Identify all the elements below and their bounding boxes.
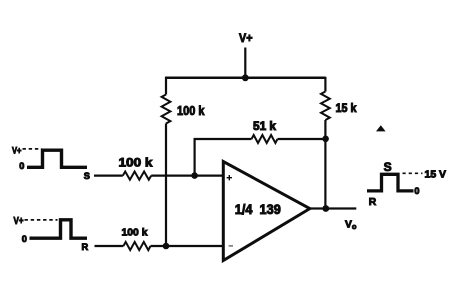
dashed V+ level line (R waveform) <box>25 219 58 221</box>
resistor 51 k feedback (horizontal) <box>252 135 278 143</box>
wire R input lead <box>95 245 124 247</box>
wire left vertical branch (resistor down to inverting node) <box>165 124 167 247</box>
S input pulse waveform <box>27 150 87 167</box>
wire right vertical branch (rail to resistor) <box>324 77 326 92</box>
svg-text:100 k: 100 k <box>122 227 148 239</box>
wire feedback run (from + input node up and right) <box>195 139 252 176</box>
svg-text:S: S <box>84 171 90 181</box>
svg-text:V+: V+ <box>239 31 253 45</box>
wire right vertical branch (resistor down to output node) <box>324 120 326 209</box>
svg-text:R: R <box>369 197 377 208</box>
label V+ level (R waveform) <box>14 216 24 227</box>
svg-text:0: 0 <box>414 186 419 196</box>
wire S input lead <box>94 175 123 177</box>
wire top supply rail <box>165 77 326 80</box>
svg-text:15 k: 15 k <box>336 101 357 115</box>
pin + (non-inverting input mark) <box>227 175 232 180</box>
label 100 k (R input) <box>122 227 148 239</box>
label S (input) <box>84 171 90 181</box>
label 0 level (R waveform) <box>22 234 27 244</box>
dashed 15 V level line (output waveform) <box>403 172 423 174</box>
op-amp U1 comparator triangle <box>223 162 309 261</box>
svg-text:1/4 139: 1/4 139 <box>235 202 281 217</box>
svg-text:V+: V+ <box>14 216 24 227</box>
label 100 k (pull-up) <box>177 104 205 118</box>
svg-text:0: 0 <box>22 234 27 244</box>
resistor 15 k pull-up (vertical, right) <box>321 92 330 121</box>
svg-text:51 k: 51 k <box>253 121 277 133</box>
output pulse waveform <box>367 174 414 191</box>
label 0 level (output waveform) <box>414 186 419 196</box>
label Vo output net <box>345 219 357 231</box>
label 100 k (S input) <box>119 155 153 169</box>
node junction dot at - input <box>163 243 170 250</box>
power V+ label <box>239 31 253 45</box>
label S (output waveform) <box>384 160 392 174</box>
pin - (inverting input mark) <box>229 245 233 247</box>
wire S resistor to comparator + input <box>151 175 223 177</box>
label 15 V level <box>425 170 447 181</box>
resistor 100 k (R input, horizontal) <box>123 242 150 250</box>
svg-text:S: S <box>384 160 392 174</box>
label 0 level (S waveform) <box>19 161 24 171</box>
label 15 k <box>336 101 357 115</box>
wire left vertical branch (rail to resistor) <box>165 77 167 95</box>
svg-text:R: R <box>82 242 89 252</box>
svg-text:100 k: 100 k <box>177 104 205 118</box>
wire output lead <box>310 207 357 209</box>
resistor 100 k pull-up (vertical, left) <box>162 95 171 124</box>
label V+ level (S waveform) <box>12 146 22 157</box>
svg-text:Vo: Vo <box>345 219 357 231</box>
resistor 100 k (S input, horizontal) <box>123 172 151 180</box>
R input pulse waveform <box>30 220 88 238</box>
node junction dot feedback tap on right branch <box>322 136 329 143</box>
label R (output waveform) <box>369 197 377 208</box>
marker small solid triangle <box>376 125 386 131</box>
node junction dot on rail at V+ <box>242 74 249 81</box>
label R (input) <box>82 242 89 252</box>
svg-text:V+: V+ <box>12 146 22 157</box>
node junction dot at + input <box>191 172 198 179</box>
svg-text:100 k: 100 k <box>119 155 153 169</box>
svg-text:15 V: 15 V <box>425 170 447 181</box>
dashed V+ level line (S waveform) <box>23 148 42 150</box>
node junction dot at output <box>322 205 329 212</box>
wire R resistor to comparator - input <box>151 245 224 247</box>
label 51 k <box>253 121 277 133</box>
svg-text:0: 0 <box>19 161 24 171</box>
wire V+ lead <box>244 48 246 79</box>
label 1/4 139 <box>235 202 281 217</box>
wire feedback run (resistor to right branch) <box>278 138 327 140</box>
